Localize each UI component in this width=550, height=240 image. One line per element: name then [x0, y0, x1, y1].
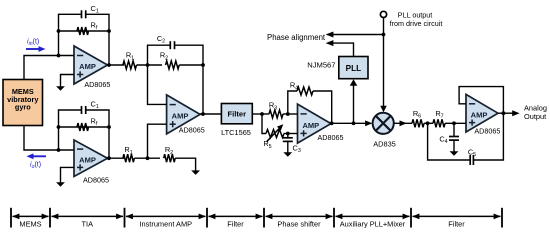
- svg-text:AD8065: AD8065: [84, 80, 110, 89]
- svg-text:MEMS: MEMS: [19, 219, 41, 228]
- svg-text:AMP: AMP: [302, 121, 319, 130]
- svg-text:TIA: TIA: [82, 219, 94, 228]
- svg-text:Phase shifter: Phase shifter: [277, 219, 321, 228]
- svg-text:AMP: AMP: [79, 156, 96, 165]
- svg-text:from drive circuit: from drive circuit: [390, 19, 443, 28]
- svg-text:AD835: AD835: [373, 139, 396, 148]
- svg-text:AD8065: AD8065: [83, 175, 109, 184]
- svg-text:LTC1565: LTC1565: [221, 128, 251, 137]
- svg-text:Output: Output: [524, 112, 546, 121]
- svg-text:Filter: Filter: [448, 219, 465, 228]
- svg-text:gyro: gyro: [15, 103, 31, 112]
- svg-text:Filter: Filter: [227, 219, 244, 228]
- svg-text:AMP: AMP: [79, 62, 96, 71]
- svg-text:Auxiliary PLL+Mixer: Auxiliary PLL+Mixer: [340, 219, 406, 228]
- svg-text:NJM567: NJM567: [307, 60, 335, 69]
- svg-text:AD8065: AD8065: [318, 133, 344, 142]
- svg-text:AD8065: AD8065: [179, 125, 205, 134]
- svg-text:AMP: AMP: [471, 110, 488, 119]
- svg-text:AD8065: AD8065: [474, 126, 500, 135]
- svg-text:Instrument AMP: Instrument AMP: [139, 219, 192, 228]
- svg-text:AMP: AMP: [172, 112, 189, 121]
- svg-text:Filter: Filter: [228, 110, 247, 119]
- svg-text:Phase alignment: Phase alignment: [267, 33, 326, 42]
- svg-text:PLL: PLL: [346, 64, 361, 73]
